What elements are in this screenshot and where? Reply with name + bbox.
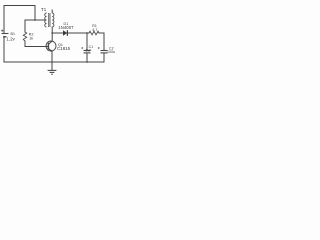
resistor R2 (23, 32, 26, 41)
transformer T1 secondary winding (52, 13, 54, 27)
wire left rail lower (3, 38, 5, 63)
wire C1 branch lower (86, 53, 88, 62)
wire top rail (4, 5, 35, 7)
transformer T1 secondary top stub (51, 10, 53, 14)
wire R2 top lead (24, 20, 26, 32)
node feed junction (34, 19, 36, 21)
ground (48, 70, 57, 74)
wire diode cathode to R1 (67, 32, 89, 34)
wire ground stub (51, 62, 53, 70)
node C1 top junction (86, 32, 88, 34)
battery B1 (1, 30, 9, 37)
wire C2 branch lower (103, 53, 105, 62)
wire R2 bottom lead to base (25, 41, 48, 47)
wire emitter lead (49, 49, 52, 62)
diode D1 (63, 30, 67, 36)
wire C1 branch upper (86, 33, 88, 50)
wire feed drop x35 (34, 6, 36, 21)
transformer T1 primary winding (45, 13, 47, 27)
wire feed horizontal y20 (25, 19, 45, 21)
resistor R1 (89, 31, 99, 35)
svg-text:100u: 100u (107, 50, 115, 54)
svg-text:T1: T1 (41, 7, 47, 12)
capacitor C2 (98, 47, 108, 53)
svg-text:4.7: 4.7 (92, 28, 97, 32)
wire node to diode anode (52, 32, 63, 34)
wire R1 to right corner (99, 33, 104, 50)
svg-text:1k: 1k (29, 36, 33, 40)
node C1 bottom junction (86, 61, 88, 63)
wire left rail upper (3, 6, 5, 34)
wire secondary bottom lead (51, 27, 53, 33)
node emitter ground junction (51, 61, 53, 63)
svg-text:1.2v: 1.2v (7, 36, 16, 41)
transformer T1 core (49, 13, 50, 27)
node collector junction (51, 32, 53, 34)
svg-text:1N4007: 1N4007 (58, 25, 74, 30)
svg-text:1uF: 1uF (85, 48, 91, 52)
svg-text:C1815: C1815 (57, 46, 71, 51)
wire collector lead (49, 33, 52, 44)
capacitor C1 (81, 47, 90, 53)
wire bottom rail (4, 61, 104, 63)
transistor Q1 (46, 41, 56, 52)
